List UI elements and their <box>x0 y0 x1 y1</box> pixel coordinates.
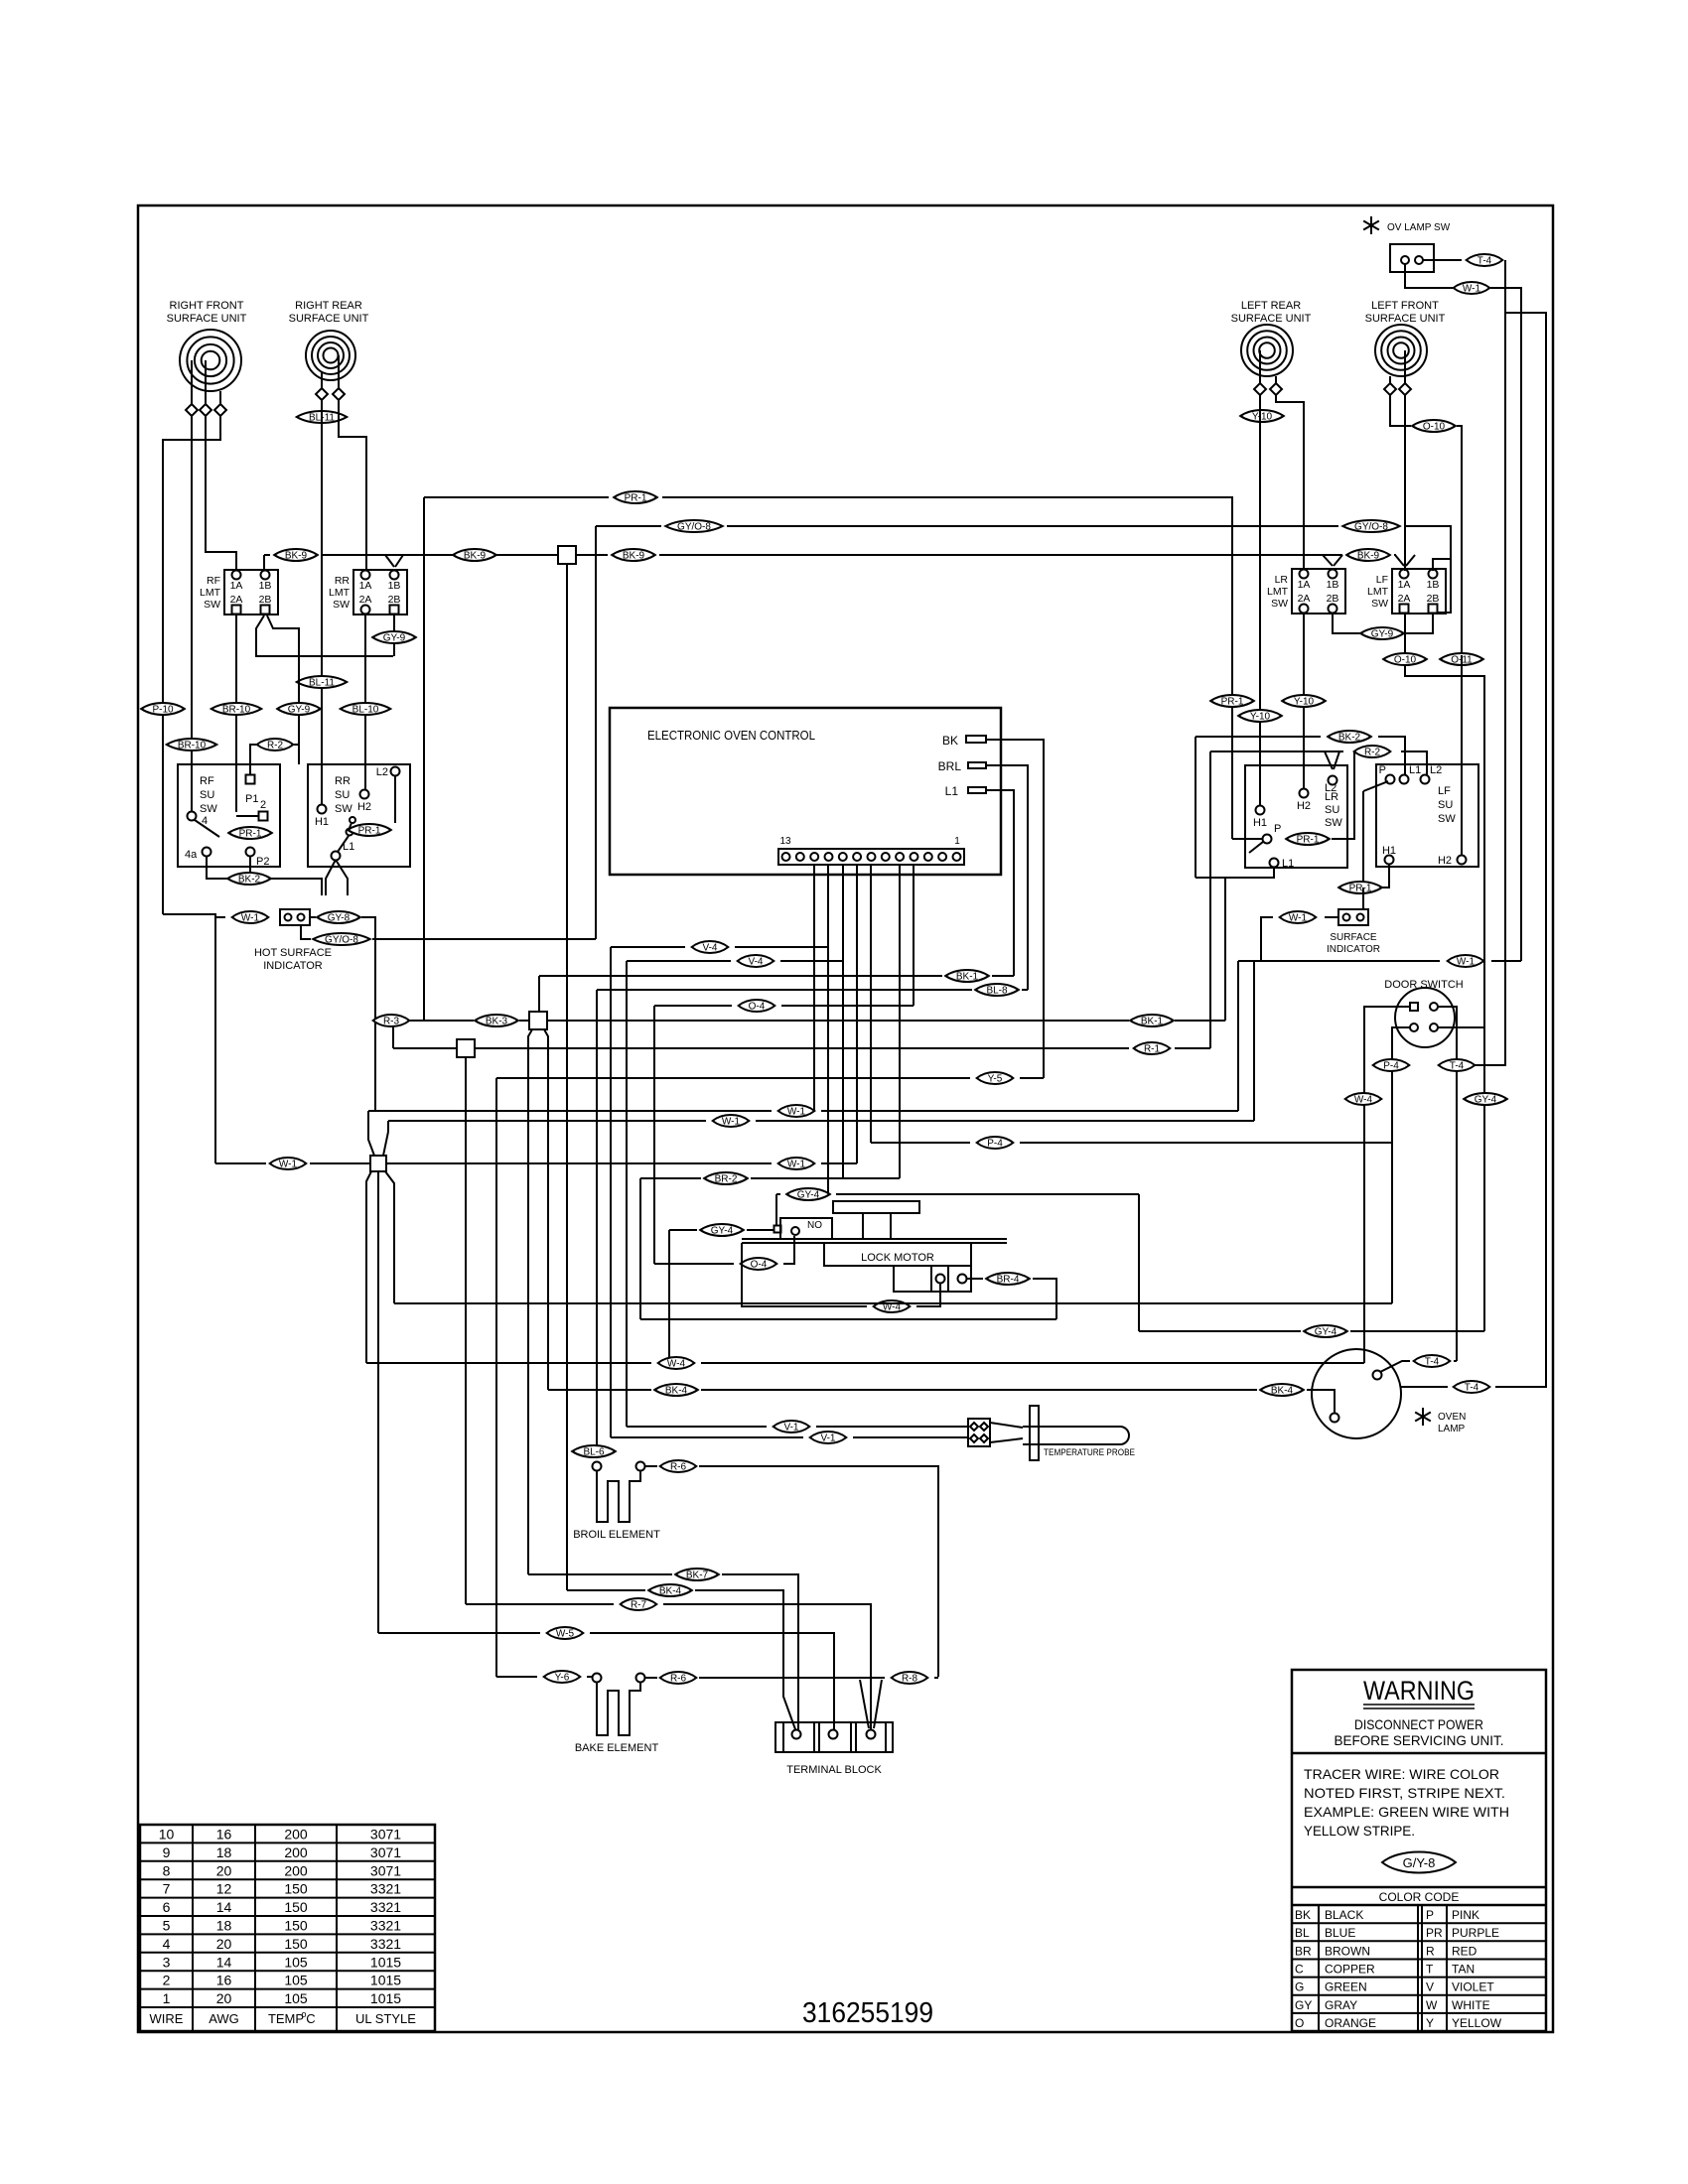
svg-text:GREEN: GREEN <box>1325 1980 1367 1994</box>
wire GY-4 long <box>1139 1330 1301 1332</box>
terminal H1 LR <box>1256 806 1265 815</box>
svg-text:AWG: AWG <box>209 2011 239 2026</box>
wire <box>368 1111 374 1156</box>
temperature probe connector <box>968 1419 990 1446</box>
svg-text:Y-10: Y-10 <box>1252 412 1273 423</box>
terminal 4 <box>188 812 197 821</box>
wire <box>263 555 265 571</box>
wire <box>775 1194 777 1225</box>
wire label W-1 mesh c <box>778 1158 815 1169</box>
wire <box>1389 376 1391 383</box>
svg-text:R-6: R-6 <box>670 1674 687 1685</box>
junction BK-9 <box>558 546 576 564</box>
oven lamp terminal b <box>1373 1371 1382 1380</box>
wire <box>1392 1027 1410 1303</box>
wire O-4 line <box>654 1005 732 1007</box>
wire label V-4 a <box>692 941 729 953</box>
wire <box>1438 1007 1457 1361</box>
svg-text:P-10: P-10 <box>152 705 174 716</box>
bake element terminals <box>593 1674 602 1683</box>
border frame <box>138 205 1553 2032</box>
svg-text:GY-4: GY-4 <box>1475 1095 1497 1106</box>
terminal P1 <box>246 775 255 784</box>
terminal L1 RR <box>332 852 341 861</box>
right rear surface unit terminals <box>316 388 328 400</box>
svg-text:OV LAMP SW: OV LAMP SW <box>1387 222 1451 233</box>
svg-text:9: 9 <box>163 1844 171 1860</box>
wire R-6 broil line <box>644 1465 657 1467</box>
wire label GY-4 b <box>700 1224 744 1236</box>
wire <box>1491 960 1521 962</box>
svg-text:1A: 1A <box>1298 579 1311 591</box>
svg-text:RIGHT REAR: RIGHT REAR <box>295 300 362 312</box>
svg-text:R-2: R-2 <box>267 741 284 751</box>
wire label GY/O-8 a <box>665 520 722 532</box>
svg-text:GY/O-8: GY/O-8 <box>1354 522 1388 533</box>
svg-text:BR-10: BR-10 <box>178 741 207 751</box>
EOC terminal strip <box>778 849 964 865</box>
svg-text:18: 18 <box>216 1918 232 1934</box>
wire label W-1 left <box>270 1158 307 1169</box>
temperature probe flange <box>1030 1406 1039 1460</box>
wire <box>385 1171 394 1303</box>
wire <box>538 976 540 1012</box>
wire <box>856 865 858 1163</box>
wire label GY/O-8 b <box>1342 520 1399 532</box>
wire <box>377 1171 379 1633</box>
svg-text:3071: 3071 <box>370 1827 401 1843</box>
svg-text:RF: RF <box>200 775 214 787</box>
svg-text:T-4: T-4 <box>1465 1383 1479 1394</box>
color code grid <box>1292 1922 1546 1924</box>
wire label PR-1 RF <box>228 827 272 839</box>
wire label W-4 door <box>1345 1093 1382 1105</box>
LR limit switch <box>1292 569 1345 614</box>
terminal L1 LF <box>1400 775 1409 784</box>
svg-text:H2: H2 <box>1438 855 1452 867</box>
wire <box>1380 1361 1410 1372</box>
svg-text:P2: P2 <box>256 856 269 868</box>
wire label R-2 left <box>257 739 294 751</box>
svg-text:BR-4: BR-4 <box>997 1275 1020 1286</box>
svg-text:V-4: V-4 <box>748 957 763 968</box>
svg-text:1A: 1A <box>1398 579 1411 591</box>
wire <box>1333 614 1433 633</box>
svg-text:150: 150 <box>284 1899 308 1915</box>
svg-text:5: 5 <box>163 1918 171 1934</box>
svg-text:DISCONNECT POWER: DISCONNECT POWER <box>1354 1716 1483 1732</box>
svg-text:18: 18 <box>216 1844 232 1860</box>
junction mesh a <box>529 1012 547 1029</box>
lock motor body <box>824 1243 971 1266</box>
wire label V-1 b <box>810 1432 847 1443</box>
wire <box>986 790 1014 976</box>
svg-text:YELLOW STRIPE.: YELLOW STRIPE. <box>1304 1823 1415 1839</box>
svg-text:LOCK MOTOR: LOCK MOTOR <box>861 1252 934 1264</box>
wire <box>610 947 612 1437</box>
wire BK-1 line <box>539 975 942 977</box>
wire <box>595 526 597 939</box>
svg-text:3321: 3321 <box>370 1936 401 1952</box>
svg-text:YELLOW: YELLOW <box>1452 2016 1502 2030</box>
lock motor NO contact <box>774 1226 781 1233</box>
svg-text:BROIL ELEMENT: BROIL ELEMENT <box>573 1529 660 1541</box>
wire <box>528 1029 532 1574</box>
wire <box>321 372 323 388</box>
svg-text:BK-1: BK-1 <box>1141 1017 1164 1027</box>
wire <box>1382 864 1389 887</box>
svg-text:2: 2 <box>260 799 266 811</box>
warning underline <box>1363 1704 1475 1706</box>
bake element <box>597 1682 640 1735</box>
LR surface switch box <box>1245 765 1347 868</box>
svg-text:2B: 2B <box>1427 593 1440 605</box>
svg-text:RR: RR <box>335 775 351 787</box>
junction mesh b <box>457 1039 475 1057</box>
wire <box>1390 395 1411 426</box>
svg-text:O-4: O-4 <box>751 1260 768 1271</box>
svg-text:OVEN: OVEN <box>1438 1412 1466 1423</box>
svg-text:P: P <box>1426 1908 1434 1922</box>
wire <box>1138 1194 1140 1331</box>
svg-text:SU: SU <box>200 789 214 801</box>
svg-text:INDICATOR: INDICATOR <box>1327 944 1380 955</box>
oven lamp body <box>1312 1349 1401 1438</box>
svg-text:V: V <box>1426 1980 1434 1994</box>
right front surface unit terminals <box>186 404 198 416</box>
svg-text:150: 150 <box>284 1918 308 1934</box>
wire <box>1461 655 1463 856</box>
wire <box>339 400 366 571</box>
terminal 2 <box>259 812 268 821</box>
lock motor terminals <box>936 1275 945 1284</box>
wire label R-7 <box>621 1598 657 1610</box>
svg-text:1015: 1015 <box>370 1954 401 1970</box>
wire <box>1238 960 1440 962</box>
terminal P LR <box>1263 835 1272 844</box>
svg-text:3071: 3071 <box>370 1844 401 1860</box>
svg-text:P1: P1 <box>245 793 258 805</box>
svg-text:VIOLET: VIOLET <box>1452 1980 1494 1994</box>
svg-text:20: 20 <box>216 1936 232 1952</box>
wire label O-4 b <box>741 1258 777 1270</box>
svg-text:2A: 2A <box>1298 593 1311 605</box>
terminal H1 LF <box>1385 856 1394 865</box>
wire <box>1210 751 1343 752</box>
svg-text:HOT SURFACE: HOT SURFACE <box>254 947 332 959</box>
svg-text:PR-1: PR-1 <box>239 829 262 840</box>
svg-text:13: 13 <box>779 836 791 847</box>
terminal block terminals <box>792 1730 801 1739</box>
svg-text:V-4: V-4 <box>702 943 717 954</box>
temperature probe body <box>1023 1427 1129 1444</box>
wire <box>1495 313 1546 1387</box>
wire label W-1 door <box>1448 955 1484 967</box>
wire <box>1362 887 1364 909</box>
wire label GY-4 a <box>786 1188 830 1200</box>
wire label GY-8 <box>317 911 360 923</box>
wire label BR-10 b <box>211 703 262 715</box>
wire <box>236 815 258 817</box>
svg-text:SW: SW <box>335 803 352 815</box>
wire label BK-3 <box>475 1015 518 1026</box>
wire <box>1195 737 1196 878</box>
wire <box>372 938 596 940</box>
svg-text:GY-9: GY-9 <box>1371 629 1394 640</box>
svg-text:P-4: P-4 <box>987 1139 1003 1150</box>
wire label BK-1 mesh <box>945 970 989 982</box>
wire <box>393 615 395 656</box>
terminal 4a <box>203 848 211 857</box>
svg-text:LEFT REAR: LEFT REAR <box>1241 300 1301 312</box>
svg-text:W-1: W-1 <box>241 913 260 924</box>
wire label T-4 lamp b <box>1454 1381 1490 1393</box>
svg-text:INDICATOR: INDICATOR <box>263 960 323 972</box>
svg-text:EXAMPLE: GREEN WIRE WITH: EXAMPLE: GREEN WIRE WITH <box>1304 1804 1509 1820</box>
wire BR-4 line <box>966 1278 983 1280</box>
wire table grid <box>140 1825 435 2031</box>
wire W-1 line a <box>368 1110 772 1112</box>
wire label BL-8 <box>975 984 1019 996</box>
RF limit switch <box>224 570 278 614</box>
svg-text:16: 16 <box>216 1827 232 1843</box>
svg-text:COPPER: COPPER <box>1325 1963 1375 1977</box>
wire <box>1261 917 1273 961</box>
svg-text:SU: SU <box>335 789 350 801</box>
svg-text:2A: 2A <box>359 594 372 606</box>
svg-text:GRAY: GRAY <box>1325 1998 1357 2012</box>
svg-text:R-7: R-7 <box>631 1600 647 1611</box>
wire <box>163 914 225 917</box>
svg-text:GY-4: GY-4 <box>711 1226 734 1237</box>
svg-text:4a: 4a <box>185 849 198 861</box>
temperature probe cone <box>990 1423 1023 1428</box>
wire label O-10 top <box>1412 420 1456 432</box>
svg-text:O-10: O-10 <box>1423 422 1446 433</box>
svg-text:O-10: O-10 <box>1394 655 1417 666</box>
svg-text:H2: H2 <box>1297 800 1311 812</box>
wire label W-1 mesh a <box>778 1105 815 1117</box>
svg-text:2B: 2B <box>1327 593 1339 605</box>
svg-text:200: 200 <box>284 1862 308 1878</box>
svg-text:TERMINAL BLOCK: TERMINAL BLOCK <box>786 1764 882 1776</box>
lock motor lever <box>833 1201 919 1213</box>
terminal H2 LR <box>1300 789 1309 798</box>
svg-text:BK-3: BK-3 <box>486 1017 508 1027</box>
svg-text:SURFACE UNIT: SURFACE UNIT <box>167 313 247 325</box>
wire Y-5 line <box>496 1077 970 1079</box>
svg-text:P-4: P-4 <box>1383 1061 1399 1072</box>
wire <box>1209 751 1211 1048</box>
wire label W-4 long <box>658 1357 695 1369</box>
wire <box>1232 838 1262 840</box>
svg-text:TAN: TAN <box>1452 1963 1475 1977</box>
svg-text:1A: 1A <box>230 580 243 592</box>
svg-text:BROWN: BROWN <box>1325 1944 1370 1958</box>
svg-text:V-1: V-1 <box>783 1423 798 1433</box>
wire <box>1325 916 1338 918</box>
wire <box>1404 395 1406 571</box>
door switch pins <box>1410 1003 1418 1011</box>
wire <box>321 400 323 805</box>
wire <box>191 416 193 812</box>
wire BK-7 line <box>528 1573 672 1575</box>
wire <box>1362 791 1364 887</box>
wire <box>361 917 375 1111</box>
svg-text:RED: RED <box>1452 1944 1477 1958</box>
wire label T-4 lamp a <box>1414 1355 1451 1367</box>
wire label BK-4 b <box>648 1584 692 1596</box>
svg-text:L1: L1 <box>1409 764 1421 776</box>
terminal L2 LR <box>1329 776 1337 785</box>
wire <box>163 416 220 914</box>
svg-text:20: 20 <box>216 1990 232 2006</box>
svg-text:W-1: W-1 <box>1463 284 1481 295</box>
svg-text:12: 12 <box>216 1881 232 1897</box>
wire label P-10 <box>141 703 185 715</box>
wire <box>626 961 628 1427</box>
svg-text:200: 200 <box>284 1844 308 1860</box>
wire label Y-10 a <box>1238 710 1282 722</box>
wire <box>1457 426 1462 655</box>
svg-text:O-4: O-4 <box>749 1002 766 1013</box>
svg-text:T: T <box>1426 1963 1434 1977</box>
wire <box>566 564 568 1590</box>
svg-text:BK-9: BK-9 <box>1357 551 1380 562</box>
wire label W-4 lock <box>874 1300 911 1312</box>
svg-text:R-3: R-3 <box>383 1017 400 1027</box>
hot surface indicator box <box>280 909 310 925</box>
switch arm LR <box>1249 842 1263 853</box>
svg-text:3: 3 <box>163 1954 171 1970</box>
svg-text:UL STYLE: UL STYLE <box>355 2011 416 2026</box>
svg-text:T-4: T-4 <box>1425 1357 1440 1368</box>
svg-text:LMT: LMT <box>200 587 221 599</box>
wire label G/Y-8 example <box>1382 1852 1456 1873</box>
wire <box>870 865 872 1143</box>
svg-text:WARNING: WARNING <box>1363 1676 1475 1706</box>
wire label BK-1 right <box>1130 1015 1174 1026</box>
svg-text:SW: SW <box>1371 598 1388 610</box>
wire BL-8 line <box>597 989 972 991</box>
svg-text:14: 14 <box>216 1954 232 1970</box>
terminal L1 LR <box>1270 859 1279 868</box>
svg-text:DOOR SWITCH: DOOR SWITCH <box>1384 979 1463 991</box>
svg-text:LMT: LMT <box>1367 586 1389 598</box>
wire BK-9 bus <box>264 554 270 556</box>
wire <box>842 865 844 1178</box>
svg-text:H1: H1 <box>1382 845 1396 857</box>
wire label V-1 a <box>774 1421 810 1433</box>
wire <box>1276 395 1304 568</box>
terminal block box <box>775 1722 893 1752</box>
wire W-1 line b <box>388 1120 706 1122</box>
wire R-6 bake line <box>644 1677 657 1679</box>
svg-text:R-6: R-6 <box>670 1462 687 1473</box>
wire <box>1259 395 1261 806</box>
switch arm RR <box>338 836 349 852</box>
svg-text:W-1: W-1 <box>1457 957 1476 968</box>
wire label BK-2 left <box>227 873 271 885</box>
svg-text:GY-4: GY-4 <box>797 1190 820 1201</box>
wire <box>813 865 815 1111</box>
svg-text:COLOR CODE: COLOR CODE <box>1379 1890 1460 1904</box>
svg-text:WHITE: WHITE <box>1452 1998 1490 2012</box>
wire label R-1 <box>1134 1042 1171 1054</box>
svg-text:LF: LF <box>1438 785 1451 797</box>
wire GY-4 line a <box>776 1193 780 1195</box>
svg-text:2A: 2A <box>230 594 243 606</box>
svg-text:TRACER WIRE: WIRE COLOR: TRACER WIRE: WIRE COLOR <box>1304 1766 1499 1782</box>
wire W-4 lock line <box>916 1283 940 1306</box>
wire <box>214 917 216 1163</box>
wire <box>191 360 193 404</box>
lock motor NO box <box>780 1218 832 1239</box>
svg-text:TEMPERATURE PROBE: TEMPERATURE PROBE <box>1044 1447 1135 1458</box>
LF surface switch box <box>1376 764 1478 867</box>
svg-text:105: 105 <box>284 1954 308 1970</box>
wire label BK-4 a <box>654 1384 698 1396</box>
svg-text:1015: 1015 <box>370 1990 401 2006</box>
wire <box>249 856 251 875</box>
svg-text:R-8: R-8 <box>902 1674 918 1685</box>
svg-text:TEMP: TEMP <box>268 2011 304 2026</box>
left front surface unit coil <box>1375 325 1427 376</box>
wire label Y-10 under LR coil <box>1240 410 1284 422</box>
wire label P-4 mesh <box>977 1137 1014 1149</box>
svg-text:T-4: T-4 <box>1450 1061 1465 1072</box>
svg-text:NOTED FIRST, STRIPE NEXT.: NOTED FIRST, STRIPE NEXT. <box>1304 1785 1505 1801</box>
svg-text:SW: SW <box>1325 817 1342 829</box>
wire <box>1303 614 1305 789</box>
ov lamp sw box <box>1390 244 1434 272</box>
svg-text:PR-1: PR-1 <box>1297 835 1320 846</box>
svg-text:4: 4 <box>163 1936 171 1952</box>
terminal block dividers <box>782 1722 784 1752</box>
svg-text:BK-4: BK-4 <box>665 1386 688 1397</box>
wire <box>423 497 425 1021</box>
right front surface unit coil <box>180 330 241 391</box>
wire label BL-10 <box>341 703 391 715</box>
wire label W-1 hsi <box>232 911 269 923</box>
svg-text:150: 150 <box>284 1881 308 1897</box>
wire GY/O-8 bus <box>596 525 661 527</box>
svg-text:10: 10 <box>159 1827 175 1843</box>
wire label Y-10 b <box>1282 695 1326 707</box>
wire label GY-4 lamp <box>1304 1325 1347 1337</box>
svg-text:BL: BL <box>1295 1926 1310 1940</box>
svg-text:1B: 1B <box>388 580 401 592</box>
oven lamp terminal a <box>1331 1414 1339 1423</box>
wire label BK-9 c <box>612 549 655 561</box>
RF surface switch box <box>178 764 280 867</box>
wire label GY-9 right <box>1360 627 1404 639</box>
right rear surface unit coil <box>306 331 355 380</box>
wire label BL-11 <box>297 411 348 423</box>
wire label O-11 <box>1440 653 1483 665</box>
svg-text:WIRE: WIRE <box>150 2011 184 2026</box>
wire label BL-6 <box>572 1445 616 1457</box>
wire <box>392 1025 394 1048</box>
wire R-3 BK-3 BK-1 line <box>388 1020 474 1022</box>
svg-text:PR-1: PR-1 <box>1349 884 1372 894</box>
svg-text:T-4: T-4 <box>1477 256 1492 267</box>
svg-text:SW: SW <box>1271 598 1288 610</box>
wire <box>986 740 1044 1078</box>
svg-text:R-1: R-1 <box>1144 1044 1161 1055</box>
svg-text:BK: BK <box>942 734 958 748</box>
svg-text:GY-4: GY-4 <box>1315 1327 1337 1338</box>
